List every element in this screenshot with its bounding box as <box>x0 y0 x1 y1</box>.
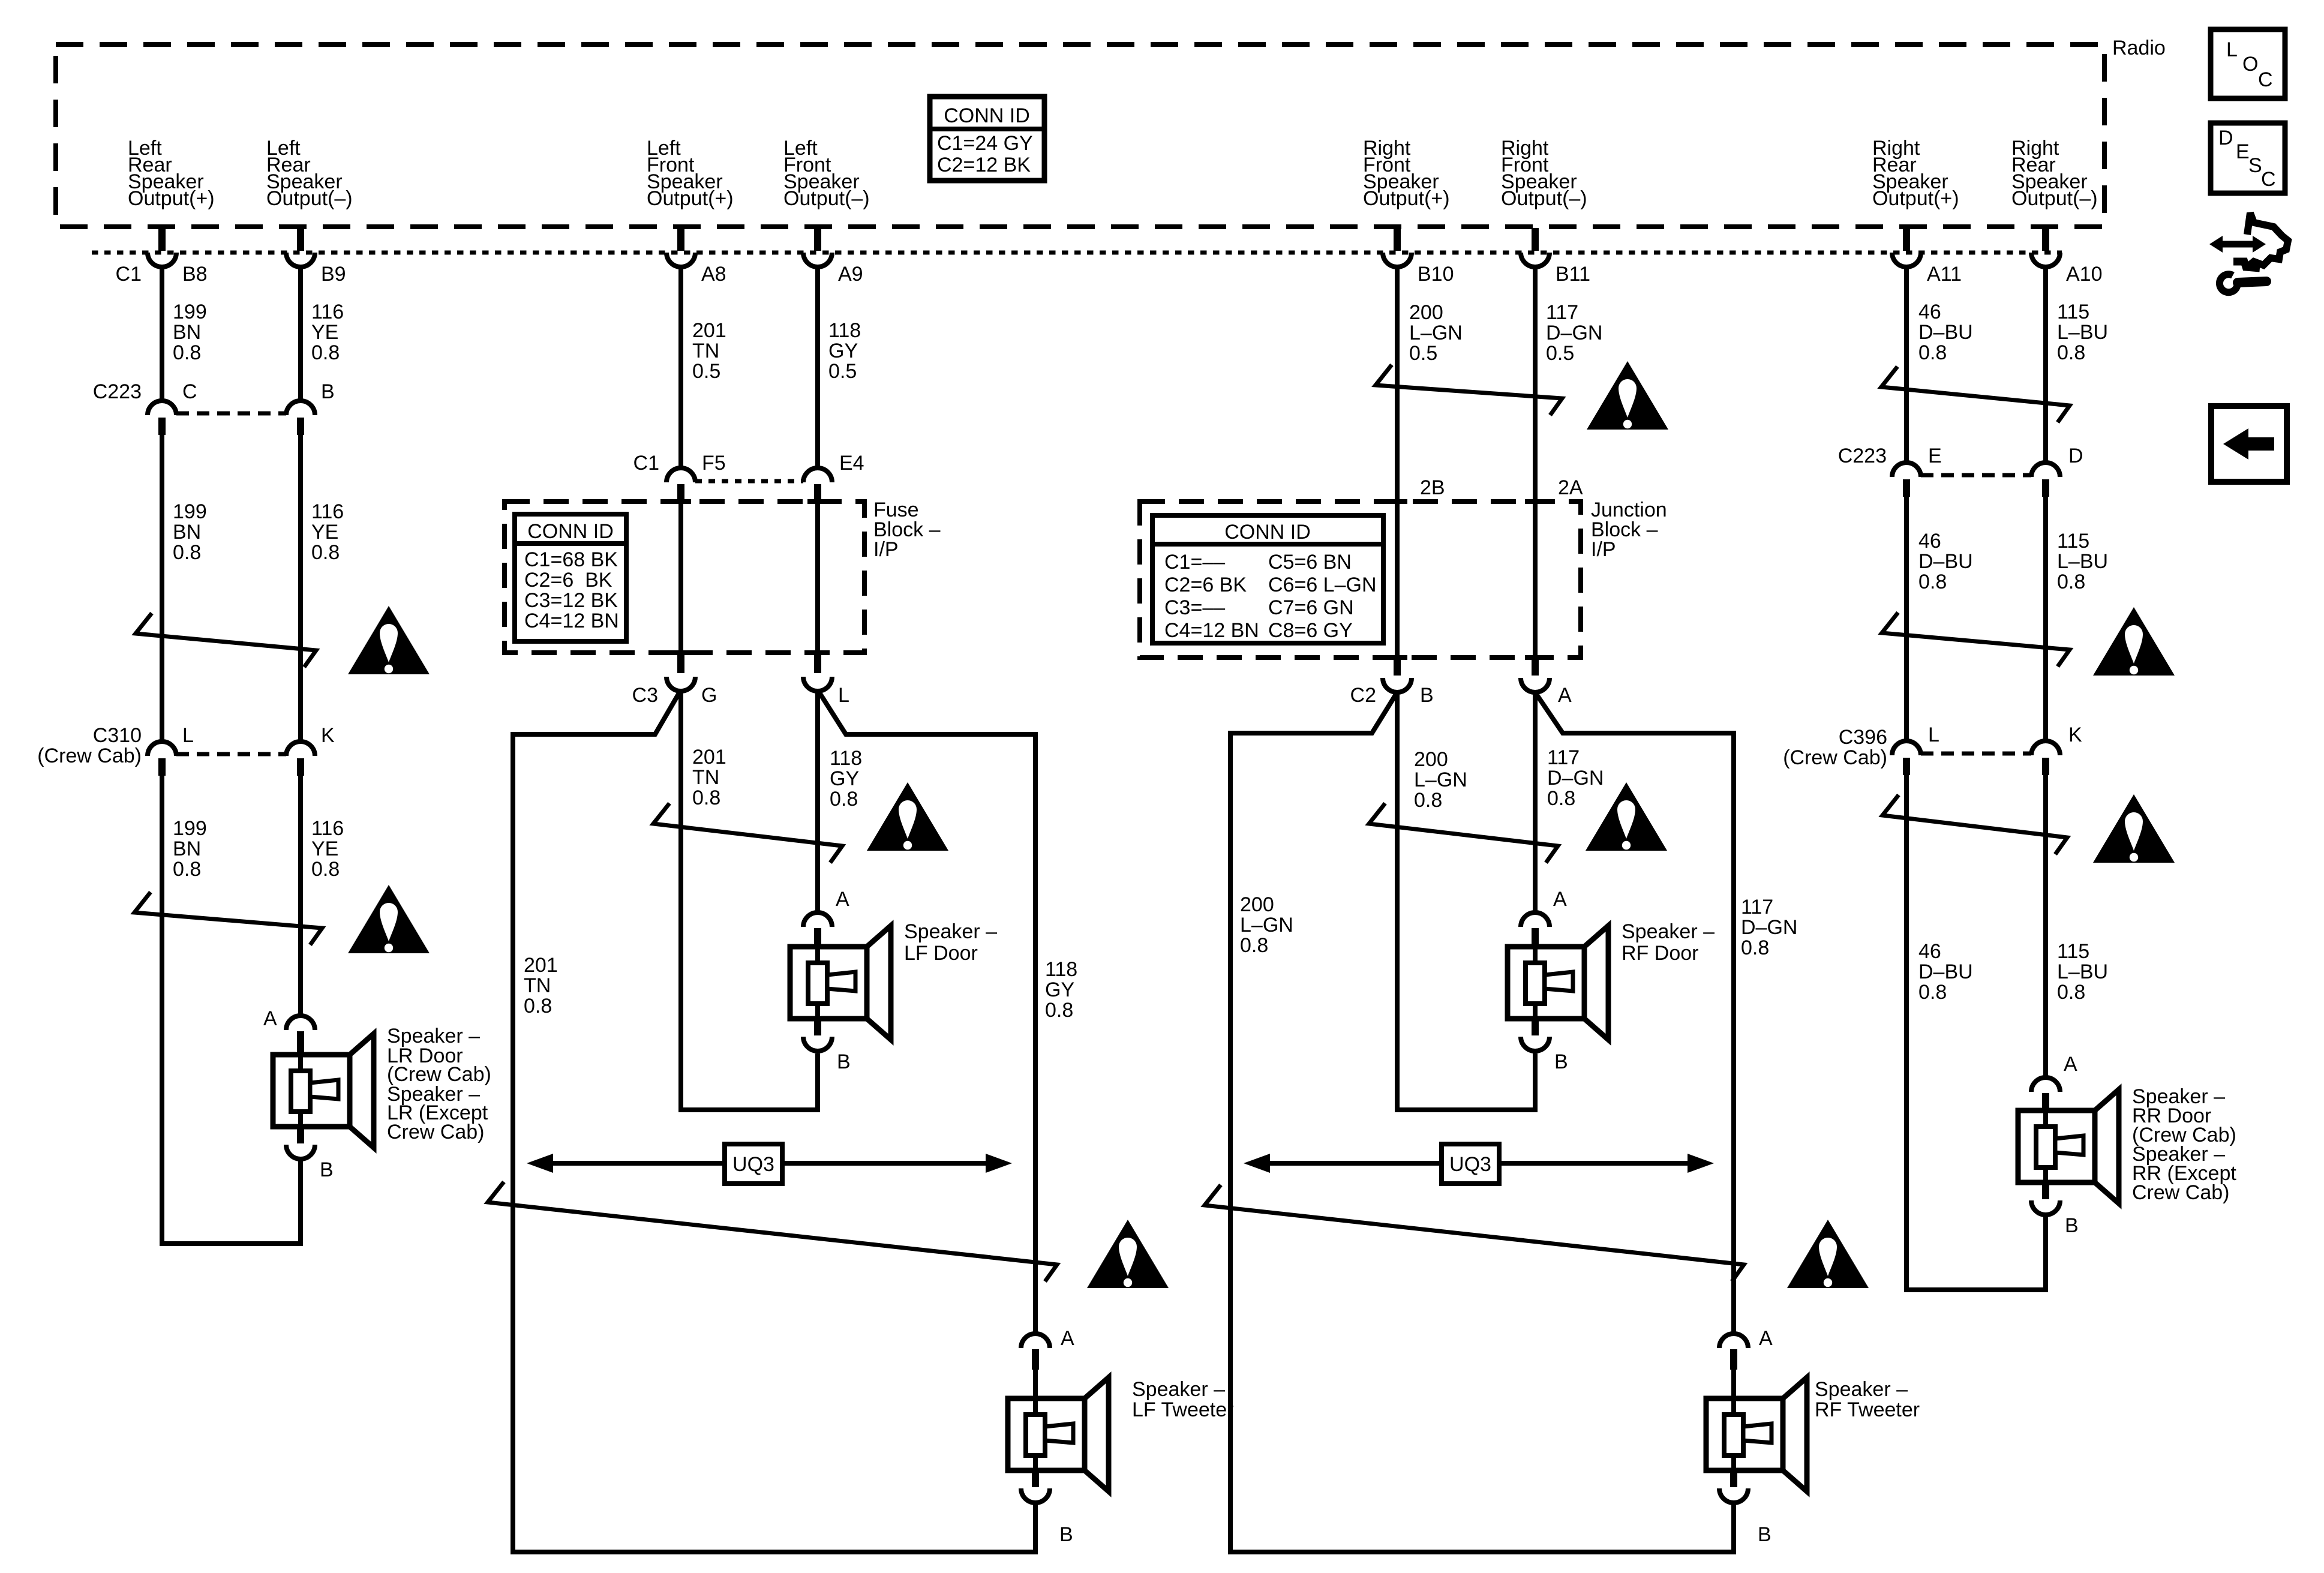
inline connector C223 (E,D) <box>1892 463 2060 497</box>
svg-text:C3=12 BK: C3=12 BK <box>524 589 618 612</box>
svg-text:C3=––: C3=–– <box>1164 596 1225 619</box>
svg-text:TN: TN <box>524 974 551 997</box>
svg-text:D: D <box>2218 127 2233 149</box>
svg-text:TN: TN <box>692 340 719 362</box>
svg-text:Speaker –: Speaker – <box>1132 1378 1225 1401</box>
svg-text:I/P: I/P <box>873 538 899 561</box>
svg-text:L: L <box>182 724 194 747</box>
svg-text:C2=12 BK: C2=12 BK <box>937 154 1031 176</box>
svg-text:0.8: 0.8 <box>1918 341 1947 364</box>
wire break symbol (left rear body harness) <box>134 892 322 945</box>
wire 46 D-BU radio A11 to C223 E <box>1904 267 1909 464</box>
svg-text:A: A <box>1558 684 1572 707</box>
svg-text:0.8: 0.8 <box>173 858 201 881</box>
wire 117 D-GN A to RF door speaker A <box>1533 692 1538 913</box>
svg-text:L: L <box>838 684 849 707</box>
svg-text:118: 118 <box>830 747 862 770</box>
junction block edge ticks at wire crossings <box>1387 499 1407 504</box>
svg-text:L–GN: L–GN <box>1409 322 1463 344</box>
svg-text:Output(+): Output(+) <box>647 187 734 210</box>
svg-text:B: B <box>321 380 335 403</box>
svg-text:C7=6 GN: C7=6 GN <box>1268 596 1354 619</box>
svg-text:E: E <box>2236 140 2250 163</box>
svg-text:GY: GY <box>830 767 859 790</box>
svg-text:Output(+): Output(+) <box>1872 187 1959 210</box>
svg-text:D–BU: D–BU <box>1918 321 1973 344</box>
svg-text:BN: BN <box>173 321 201 344</box>
svg-text:B10: B10 <box>1418 263 1454 286</box>
wire break symbol (right front door harness) <box>1369 803 1558 863</box>
svg-text:B: B <box>1059 1523 1073 1546</box>
svg-text:RF Door: RF Door <box>1622 942 1698 965</box>
svg-text:116: 116 <box>311 817 344 840</box>
speaker RF Tweeter <box>1706 1327 1920 1546</box>
wire break symbol (right rear harness) <box>1881 367 2070 422</box>
fuse block dashed box <box>505 502 864 653</box>
svg-text:Speaker –: Speaker – <box>904 920 997 943</box>
svg-text:201: 201 <box>692 319 726 342</box>
svg-text:C6=6 L–GN: C6=6 L–GN <box>1268 574 1377 596</box>
warning triangle (left tweeter) <box>1087 1220 1169 1288</box>
svg-text:201: 201 <box>692 746 726 769</box>
svg-text:A: A <box>263 1007 277 1030</box>
svg-text:0.5: 0.5 <box>1546 342 1574 365</box>
svg-text:BN: BN <box>173 837 201 860</box>
svg-text:I/P: I/P <box>1591 538 1616 561</box>
svg-text:B: B <box>1420 684 1434 707</box>
svg-text:L–BU: L–BU <box>2057 321 2108 344</box>
svg-text:115: 115 <box>2057 301 2089 323</box>
svg-text:C: C <box>2258 68 2273 91</box>
svg-text:YE: YE <box>311 321 338 344</box>
svg-text:C1=68 BK: C1=68 BK <box>524 548 618 571</box>
svg-text:Output(+): Output(+) <box>128 187 215 210</box>
radio terminal A10 <box>2031 228 2060 267</box>
wire 46 D-BU C223 to C396 <box>1904 497 1909 742</box>
svg-text:C2=6 BK: C2=6 BK <box>524 569 612 592</box>
wire break symbol (right rear body harness) <box>1882 795 2067 854</box>
svg-text:117: 117 <box>1547 746 1580 769</box>
wire branch A to RF tweeter A <box>1535 692 1734 1334</box>
svg-text:Radio: Radio <box>2112 37 2166 59</box>
svg-text:199: 199 <box>173 817 207 840</box>
svg-text:B9: B9 <box>321 263 346 286</box>
svg-text:L–BU: L–BU <box>2057 550 2108 573</box>
svg-text:D–BU: D–BU <box>1918 960 1973 983</box>
svg-text:A11: A11 <box>1927 263 1962 286</box>
DESC reference icon <box>2211 123 2285 193</box>
wire 117 D-GN inside junction block <box>1533 502 1538 658</box>
inline connector C396 (L,K) <box>1892 741 2060 775</box>
svg-text:LF Tweeter: LF Tweeter <box>1132 1398 1233 1421</box>
wire 116 YE C310 K to LR speaker A <box>298 776 303 1016</box>
svg-text:Output(–): Output(–) <box>783 187 870 210</box>
svg-text:B: B <box>1758 1523 1771 1546</box>
fuse block bottom connector C3 (G,L) <box>666 653 832 691</box>
svg-text:B: B <box>1554 1050 1568 1073</box>
radio terminal A11 <box>1892 228 1921 267</box>
svg-text:K: K <box>2068 724 2082 746</box>
wire 201 TN radio A8 to fuse block C1 F5 <box>678 267 683 469</box>
wire 118 GY L to LF door speaker A <box>815 691 820 913</box>
svg-text:0.5: 0.5 <box>828 360 857 383</box>
svg-text:C223: C223 <box>1838 445 1887 467</box>
wire 200 L-GN inside junction block <box>1395 502 1400 658</box>
svg-text:46: 46 <box>1918 301 1941 323</box>
svg-text:201: 201 <box>524 954 558 977</box>
svg-text:G: G <box>701 684 717 707</box>
svg-text:Speaker –: Speaker – <box>1622 920 1715 943</box>
wire 201 TN G to LF door speaker B (return loop) <box>681 691 818 1110</box>
svg-text:0.8: 0.8 <box>1918 571 1947 593</box>
fuse block edge ticks at wire crossings <box>671 499 691 504</box>
svg-text:O: O <box>2242 53 2258 76</box>
svg-text:200: 200 <box>1409 301 1443 324</box>
svg-text:115: 115 <box>2057 940 2089 963</box>
warning triangle (right rear lower) <box>2093 794 2175 863</box>
wire 115 L-BU C396 K to RR speaker A <box>2043 775 2048 1078</box>
svg-text:0.8: 0.8 <box>1547 787 1575 810</box>
svg-text:D–GN: D–GN <box>1741 916 1797 939</box>
svg-text:0.8: 0.8 <box>830 788 858 810</box>
svg-text:YE: YE <box>311 837 338 860</box>
svg-text:GY: GY <box>1045 978 1074 1001</box>
svg-text:Output(–): Output(–) <box>1501 187 1587 210</box>
svg-text:C2=6 BK: C2=6 BK <box>1164 574 1247 596</box>
svg-text:Crew Cab): Crew Cab) <box>387 1121 484 1143</box>
speaker LF Tweeter <box>1008 1327 1233 1546</box>
speaker RF Door <box>1508 888 1715 1073</box>
radio terminal A8 <box>666 228 695 267</box>
wire 200 L-GN B to RF door speaker B (return loop) <box>1397 692 1535 1110</box>
svg-text:Output(–): Output(–) <box>2011 187 2098 210</box>
svg-text:K: K <box>321 724 335 747</box>
radio terminal B9 <box>286 228 315 267</box>
svg-text:200: 200 <box>1240 893 1274 916</box>
svg-text:0.5: 0.5 <box>1409 342 1437 365</box>
svg-text:E: E <box>1928 445 1942 467</box>
svg-text:C1: C1 <box>633 452 659 475</box>
svg-text:TN: TN <box>692 766 719 789</box>
warning triangle (right rear) <box>2093 607 2175 676</box>
svg-text:A8: A8 <box>701 263 726 286</box>
svg-text:C4=12 BN: C4=12 BN <box>1164 619 1259 642</box>
wire 118 GY inside fuse block <box>815 500 820 653</box>
svg-text:A: A <box>2064 1053 2077 1076</box>
speaker LF Door <box>790 888 997 1073</box>
svg-text:C: C <box>2261 168 2276 191</box>
svg-text:A: A <box>1553 888 1567 911</box>
wire 115 L-BU radio A10 to C223 D <box>2043 267 2048 464</box>
radio terminal B10 <box>1383 228 1412 267</box>
svg-text:F5: F5 <box>702 452 726 475</box>
svg-text:0.8: 0.8 <box>2057 571 2085 593</box>
wire 116 YE C223 to C310 <box>298 435 303 742</box>
wire 118 GY radio A9 to fuse block E4 <box>815 267 820 469</box>
svg-text:0.8: 0.8 <box>524 995 552 1017</box>
wire branch B to RF tweeter loop <box>1230 692 1734 1552</box>
inline connector C310 (L,K) <box>148 742 315 776</box>
UQ3 option tag (left) <box>527 1144 1012 1184</box>
wire 117 D-GN radio B11 to junction block 2A <box>1533 267 1538 502</box>
svg-text:A: A <box>1759 1327 1773 1350</box>
radio harness connector dotted line <box>92 251 2062 255</box>
fuse block CONN ID table <box>515 514 626 641</box>
svg-text:117: 117 <box>1546 301 1578 324</box>
svg-text:E4: E4 <box>839 452 864 475</box>
svg-text:0.8: 0.8 <box>311 541 340 564</box>
svg-text:BN: BN <box>173 521 201 544</box>
svg-text:0.8: 0.8 <box>1240 934 1268 957</box>
wire 115 L-BU C223 to C396 <box>2043 497 2048 742</box>
svg-text:D–GN: D–GN <box>1546 322 1602 344</box>
svg-text:S: S <box>2248 154 2262 177</box>
junction block dashed box <box>1140 502 1581 658</box>
wire 199 BN C223 to C310 <box>160 435 164 742</box>
svg-text:0.8: 0.8 <box>1045 999 1073 1022</box>
svg-text:RF Tweeter: RF Tweeter <box>1815 1398 1920 1421</box>
svg-text:0.8: 0.8 <box>2057 981 2085 1004</box>
svg-text:199: 199 <box>173 500 207 523</box>
svg-text:A9: A9 <box>838 263 863 286</box>
svg-text:C396: C396 <box>1839 726 1887 749</box>
svg-text:C2: C2 <box>1350 684 1376 707</box>
svg-text:A: A <box>836 888 849 911</box>
svg-text:0.8: 0.8 <box>1741 936 1769 959</box>
wire break symbol (right rear mid harness) <box>1882 613 2070 667</box>
svg-text:2A: 2A <box>1558 476 1583 499</box>
back arrow icon <box>2211 406 2287 482</box>
svg-text:C1=––: C1=–– <box>1164 551 1225 574</box>
svg-text:Output(+): Output(+) <box>1363 187 1450 210</box>
fuse block top connector C1 (F5,E4) <box>666 468 832 501</box>
svg-text:L–BU: L–BU <box>2057 960 2108 983</box>
svg-text:0.8: 0.8 <box>173 341 201 364</box>
svg-text:UQ3: UQ3 <box>732 1153 774 1176</box>
warning triangle (left front) <box>867 782 948 851</box>
svg-text:0.8: 0.8 <box>311 858 340 881</box>
wire break symbol (right front harness) <box>1376 365 1562 415</box>
wire break symbol (right tweeter harness) <box>1205 1185 1744 1281</box>
svg-text:A: A <box>1061 1327 1074 1350</box>
svg-text:115: 115 <box>2057 530 2089 553</box>
wire break symbol (left rear harness) <box>136 613 316 667</box>
radio terminal A9 <box>803 228 832 267</box>
warning triangle (right front lower) <box>1586 782 1667 851</box>
svg-text:0.8: 0.8 <box>173 541 201 564</box>
svg-text:(Crew Cab): (Crew Cab) <box>1783 746 1887 769</box>
svg-text:0.5: 0.5 <box>692 360 720 383</box>
radio dashed outline box <box>56 44 2104 227</box>
warning triangle (left rear) <box>348 606 430 674</box>
svg-text:D–GN: D–GN <box>1547 767 1604 789</box>
wire break symbol (left tweeter harness) <box>488 1182 1057 1281</box>
wire 199 BN C310 L to LR speaker B (return loop) <box>162 776 301 1244</box>
harness routing / wrench icon <box>2209 213 2288 292</box>
svg-text:0.8: 0.8 <box>311 341 340 364</box>
wire 116 YE radio B9 to C223 B <box>298 267 303 401</box>
svg-text:C3: C3 <box>632 684 658 707</box>
svg-text:CONN ID: CONN ID <box>1224 521 1311 544</box>
svg-text:YE: YE <box>311 521 338 544</box>
svg-text:Crew Cab): Crew Cab) <box>2132 1181 2229 1204</box>
svg-text:B: B <box>320 1158 334 1181</box>
svg-text:L: L <box>1928 724 1939 746</box>
svg-text:46: 46 <box>1918 940 1941 963</box>
svg-text:C4=12 BN: C4=12 BN <box>524 610 619 632</box>
warning triangle (left rear lower) <box>348 885 430 953</box>
svg-text:0.8: 0.8 <box>692 786 720 809</box>
wire branch G to LF tweeter loop <box>513 690 1035 1552</box>
LOC reference icon <box>2211 29 2285 98</box>
svg-text:118: 118 <box>828 319 861 342</box>
wire 201 TN inside fuse block <box>678 500 683 653</box>
svg-text:0.8: 0.8 <box>1414 789 1442 812</box>
wire 46 D-BU C396 L to RR speaker B (return loop) <box>1906 775 2046 1290</box>
svg-text:C8=6 GY: C8=6 GY <box>1268 619 1353 642</box>
svg-text:C310: C310 <box>93 724 142 747</box>
svg-text:2B: 2B <box>1420 476 1445 499</box>
svg-text:(Crew Cab): (Crew Cab) <box>37 745 142 767</box>
UQ3 option tag (right) <box>1244 1144 1714 1184</box>
junction block CONN ID table <box>1152 515 1383 643</box>
svg-text:199: 199 <box>173 301 207 323</box>
warning triangle (right tweeter) <box>1787 1220 1869 1288</box>
svg-text:UQ3: UQ3 <box>1449 1153 1491 1176</box>
svg-text:D–BU: D–BU <box>1918 550 1973 573</box>
svg-text:0.8: 0.8 <box>2057 341 2085 364</box>
svg-text:C1=24 GY: C1=24 GY <box>937 132 1033 155</box>
svg-text:B11: B11 <box>1556 263 1590 286</box>
svg-text:D: D <box>2068 445 2083 467</box>
inline connector C223 (C,B) <box>148 401 315 435</box>
svg-text:116: 116 <box>311 301 344 323</box>
svg-text:C223: C223 <box>93 380 142 403</box>
svg-text:LF Door: LF Door <box>904 942 978 965</box>
wire branch L to LF tweeter A <box>818 690 1035 1334</box>
radio terminal B11 <box>1521 228 1550 267</box>
svg-text:118: 118 <box>1045 958 1077 981</box>
junction block bottom connector C2 (B,A) <box>1383 658 1550 692</box>
svg-text:200: 200 <box>1414 748 1448 771</box>
svg-text:117: 117 <box>1741 896 1773 918</box>
svg-text:CONN ID: CONN ID <box>527 520 614 543</box>
svg-text:L: L <box>2226 38 2238 61</box>
svg-text:C5=6 BN: C5=6 BN <box>1268 551 1352 574</box>
svg-text:Speaker –: Speaker – <box>1815 1378 1908 1401</box>
svg-text:GY: GY <box>828 340 858 362</box>
svg-text:C: C <box>182 380 197 403</box>
svg-text:A10: A10 <box>2066 263 2103 286</box>
svg-text:116: 116 <box>311 500 344 523</box>
svg-text:0.8: 0.8 <box>1918 981 1947 1004</box>
radio CONN ID table <box>930 97 1044 181</box>
speaker LR Door / LR <box>263 1007 491 1181</box>
svg-text:B: B <box>2065 1214 2079 1237</box>
wire break symbol (left front door harness) <box>653 803 842 863</box>
svg-text:L–GN: L–GN <box>1414 769 1467 791</box>
svg-text:B: B <box>837 1050 851 1073</box>
svg-text:Output(–): Output(–) <box>266 187 353 210</box>
svg-text:46: 46 <box>1918 530 1941 553</box>
svg-text:B8: B8 <box>182 263 208 286</box>
svg-text:CONN ID: CONN ID <box>944 104 1030 127</box>
wire 199 BN radio B8 to C223 C <box>160 267 164 401</box>
svg-text:L–GN: L–GN <box>1240 914 1293 936</box>
svg-text:C1: C1 <box>116 263 142 286</box>
speaker RR Door / RR <box>2018 1053 2236 1237</box>
warning triangle (right front) <box>1587 361 1668 430</box>
wire 200 L-GN radio B10 to junction block 2B <box>1395 267 1400 502</box>
radio terminal B8 <box>148 228 176 267</box>
